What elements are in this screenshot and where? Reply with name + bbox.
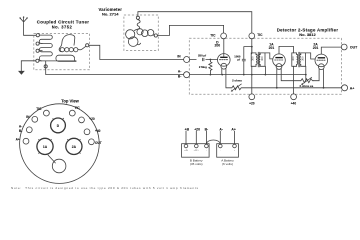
pin +20 (79, 117, 85, 123)
svg-text:300: 300 (250, 56, 254, 61)
svg-text:B-: B- (205, 127, 209, 131)
coupled circuit tuner box (34, 33, 90, 69)
B battery terminal minus (205, 144, 209, 148)
svg-text:A+: A+ (231, 127, 235, 131)
rheostat 2 (2 ohms ea) (299, 77, 313, 88)
A- B- terminal (184, 72, 190, 78)
A battery box (217, 144, 239, 158)
svg-text:(6 volts): (6 volts) (222, 162, 233, 166)
svg-text:200: 200 (214, 43, 220, 47)
junction dot 2A filament to A+ line (323, 87, 325, 89)
terminal TIC 1 (221, 33, 227, 39)
IN terminal (184, 57, 190, 63)
svg-text:OUT: OUT (350, 45, 358, 49)
svg-text:300: 300 (300, 56, 304, 61)
A battery terminal plus (233, 144, 237, 148)
socket 1A (37, 138, 53, 154)
pin +40 (84, 129, 90, 135)
svg-text:No. 2714: No. 2714 (102, 12, 119, 17)
svg-text:+40: +40 (95, 129, 101, 133)
svg-text:250 pf: 250 pf (198, 54, 206, 58)
svg-text:+20: +20 (194, 127, 200, 131)
wire A-/B- bus inside box (190, 74, 306, 76)
transformer T1 (250, 47, 272, 94)
variometer coil scribble (137, 20, 140, 29)
tube 2A 201 (313, 43, 342, 88)
junction dot detector filament to bus (221, 74, 223, 76)
ground (18, 71, 25, 75)
rheostat 1 (2 ohms) (226, 79, 342, 92)
tuner primary coil (39, 35, 76, 61)
variometer box (124, 15, 158, 51)
pin OUT (89, 139, 95, 145)
B battery terminal +22.5 (195, 144, 199, 148)
svg-text:2 ohms: 2 ohms (232, 79, 242, 83)
svg-text:A-: A- (178, 69, 181, 73)
tuner terminal secondary bottom (44, 65, 47, 68)
svg-text:Top View: Top View (61, 98, 79, 103)
svg-text:A+: A+ (16, 137, 20, 141)
wire antenna to tuner (24, 34, 37, 36)
pin IN (32, 116, 38, 122)
svg-text:TIC: TIC (36, 107, 42, 111)
variometer terminal right (154, 34, 157, 37)
detector tube D 200 (190, 39, 231, 88)
svg-text:TIC: TIC (257, 33, 263, 37)
svg-text:No. 3752: No. 3752 (52, 25, 73, 30)
svg-text:+B: +B (185, 127, 190, 131)
svg-text:+20: +20 (249, 102, 255, 106)
svg-text:+20: +20 (89, 117, 95, 121)
junction dot grid leak to bus (210, 74, 212, 76)
tuner terminal tap 4 (ground) (36, 59, 39, 62)
svg-text:300: 300 (291, 56, 295, 61)
OUT terminal (341, 44, 347, 50)
tuner secondary (variometer scribble) (56, 55, 76, 61)
battery lead wires (186, 131, 235, 144)
transformer T2 (291, 46, 315, 94)
plate junction + cap 1000pf (234, 39, 252, 75)
terminal TIC 2 (249, 33, 255, 39)
ground wire from tap 4 (21, 61, 36, 71)
svg-text:TIC: TIC (210, 34, 216, 38)
svg-text:OUT: OUT (95, 141, 102, 145)
junction dot +20 lead at bus (251, 74, 253, 76)
pin TIC left (44, 110, 50, 116)
socket D (51, 118, 66, 133)
svg-text:(45 volts): (45 volts) (190, 162, 203, 166)
tuner terminal secondary out (86, 44, 89, 47)
pin A-/B- (26, 127, 32, 133)
tube 1A 201 (269, 43, 301, 88)
tube socket top view (16, 98, 102, 183)
B battery terminal +45 (184, 144, 188, 148)
svg-text:pf: pf (237, 58, 240, 62)
B battery box (182, 144, 210, 158)
svg-text:201: 201 (269, 46, 275, 50)
wire variometer right to TIC1 (157, 25, 223, 35)
wire tuner secondary bottom to A-/B- bus (46, 61, 184, 75)
svg-text:Note: This circuit is designe: Note: This circuit is designed to use th… (11, 186, 199, 190)
svg-text:A-: A- (19, 125, 22, 129)
svg-text:2A: 2A (72, 145, 77, 149)
junction dot T2 secondary to bus (305, 74, 307, 76)
svg-text:A+: A+ (350, 86, 355, 90)
junction dot 1A filament to A+ line (276, 87, 278, 89)
junction dot T1 secondary to bus (265, 74, 267, 76)
grid leak 2 Meg (199, 59, 212, 75)
+20 terminal (249, 94, 255, 100)
grid cap 250pf (197, 54, 207, 62)
svg-text:2 ohms ea: 2 ohms ea (299, 84, 313, 88)
svg-text:1A: 1A (43, 145, 48, 149)
variometer terminal top (136, 16, 139, 19)
svg-text:A-: A- (219, 127, 223, 131)
rheostat knob pointer (48, 155, 55, 163)
antenna (19, 16, 27, 35)
+40 terminal (291, 94, 297, 100)
svg-text:201: 201 (313, 46, 319, 50)
pin TIC right (69, 110, 75, 116)
pin A+ (23, 138, 29, 144)
tuner terminal tap 2 (36, 42, 39, 45)
wire arc jumper B- to A- (206, 140, 220, 144)
svg-text:B-: B- (19, 129, 22, 133)
svg-text:2 Meg: 2 Meg (199, 65, 207, 69)
socket 2A (66, 138, 82, 154)
A battery terminal minus (219, 144, 223, 148)
svg-text:300: 300 (260, 56, 264, 61)
svg-text:TIC: TIC (75, 106, 81, 110)
svg-text:No. 3812: No. 3812 (299, 32, 316, 37)
tuner terminal tap 3 (36, 49, 39, 52)
wire variometer top to TIC2 (138, 12, 252, 33)
svg-text:+40: +40 (291, 102, 297, 106)
detector amplifier box (189, 38, 341, 94)
junction dot bypass cap to bus (243, 74, 245, 76)
tuner terminal antenna tap 1 (36, 34, 39, 37)
battery diagram (182, 127, 239, 166)
svg-text:B-: B- (178, 75, 181, 79)
wire tuner out to IN (89, 45, 184, 59)
A+ terminal (342, 85, 348, 91)
